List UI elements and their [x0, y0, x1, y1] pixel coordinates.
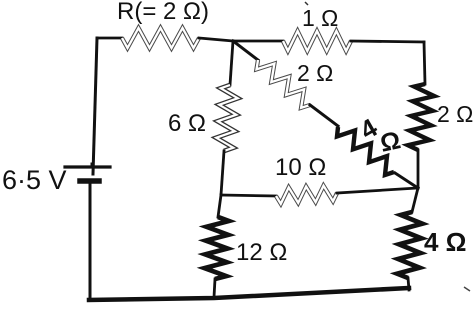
wire node B down to 4-ohm — [412, 188, 418, 212]
resistor R7 10 ohm horizontal — [276, 186, 337, 204]
wire left lower (battery to bottom-left corner) — [89, 183, 92, 299]
wire node A diagonal to 2-ohm — [233, 41, 258, 60]
svg-text:2 Ω: 2 Ω — [297, 60, 333, 86]
resistor R4 4 ohm right vertical (solid) — [397, 212, 422, 278]
svg-text:Ω: Ω — [378, 126, 403, 158]
wire 2-ohm to node B — [417, 150, 420, 188]
battery B1 plate long positive — [65, 165, 110, 168]
wire top middle to node A — [199, 38, 233, 41]
wire diagonal 4-ohm to node B — [395, 173, 418, 188]
wire node C down to 12-ohm — [218, 195, 221, 217]
resistor R5 6 ohm middle vertical — [216, 85, 238, 151]
wire diagonal between 2-ohm and 4-ohm — [310, 105, 338, 126]
stray mark top — [305, 2, 308, 5]
wire right side down to 2-ohm — [424, 42, 425, 84]
wire left upper (top-left corner to battery) — [93, 38, 97, 174]
wire node A to 1-ohm — [233, 40, 283, 43]
wire 10-ohm to node B — [337, 188, 418, 193]
resistor R3 2 ohm right (solid) — [408, 84, 434, 150]
wire node C to 10-ohm — [221, 195, 276, 196]
resistor R6 12 ohm (solid) — [205, 217, 229, 279]
resistor R2 1 ohm top — [283, 31, 351, 51]
wire bottom — [89, 288, 409, 300]
svg-text:4 Ω: 4 Ω — [424, 227, 467, 257]
wire 4-ohm to bottom-right corner — [408, 278, 409, 290]
resistor R9 4 ohm diagonal (solid) — [337, 127, 394, 175]
svg-text:2 Ω: 2 Ω — [437, 101, 473, 127]
wire 12-ohm to bottom wire — [214, 279, 215, 297]
svg-text:6·5 V: 6·5 V — [2, 165, 67, 195]
wire battery stub — [91, 164, 94, 167]
stray mark right edge — [464, 287, 470, 291]
wire 6-ohm to node C — [221, 151, 224, 195]
svg-text:12 Ω: 12 Ω — [236, 239, 287, 266]
wire 1-ohm to top-right corner — [351, 41, 424, 42]
svg-text:6 Ω: 6 Ω — [168, 110, 206, 137]
svg-text:1 Ω: 1 Ω — [302, 5, 338, 31]
resistor R1 R(=2 ohm) top-left — [122, 28, 199, 48]
svg-text:4: 4 — [355, 112, 383, 145]
battery B1 plate short negative — [80, 178, 99, 184]
svg-text:10 Ω: 10 Ω — [275, 154, 326, 181]
wire middle node A down to 6-ohm — [230, 41, 233, 85]
svg-text:R(= 2 Ω): R(= 2 Ω) — [117, 0, 209, 25]
resistor R8 2 ohm diagonal — [257, 60, 311, 108]
wire top-left segment — [97, 37, 122, 40]
